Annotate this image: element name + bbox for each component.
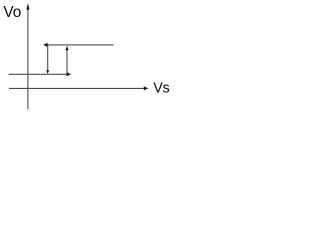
Vo axis arrowhead (up) <box>26 3 29 9</box>
Vo axis (vertical axis line) <box>27 8 29 110</box>
falling transition line (down arrow) <box>47 45 49 70</box>
svg-text:Vo: Vo <box>3 4 21 21</box>
svg-text:Vs: Vs <box>153 81 169 97</box>
Vs axis (horizontal axis line) <box>9 87 144 89</box>
Vs axis arrowhead (right) <box>144 86 148 90</box>
rising transition line (up arrow) <box>66 50 68 74</box>
lower output level line (Vo low) <box>9 73 67 75</box>
upper output level line (Vo high) <box>47 44 114 46</box>
left arrowhead on upper level line <box>43 43 47 47</box>
up arrowhead on rising transition <box>66 46 69 51</box>
right arrowhead on lower level line <box>67 72 71 76</box>
down arrowhead on falling transition <box>46 70 49 74</box>
